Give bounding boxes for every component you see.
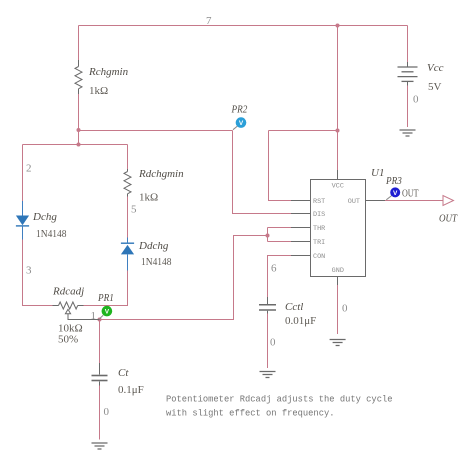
svg-text:Ct: Ct bbox=[118, 367, 129, 379]
svg-text:7: 7 bbox=[206, 15, 212, 27]
svg-text:0: 0 bbox=[342, 303, 348, 315]
svg-text:3: 3 bbox=[26, 265, 32, 277]
svg-text:Vcc: Vcc bbox=[427, 62, 444, 74]
svg-text:2: 2 bbox=[26, 163, 32, 175]
svg-text:0.1μF: 0.1μF bbox=[118, 384, 144, 396]
svg-text:OUT: OUT bbox=[348, 198, 360, 206]
svg-text:PR2: PR2 bbox=[231, 104, 248, 116]
svg-text:VCC: VCC bbox=[332, 183, 344, 191]
svg-text:Ddchg: Ddchg bbox=[138, 240, 169, 252]
svg-text:6: 6 bbox=[271, 263, 277, 275]
svg-text:5: 5 bbox=[131, 204, 137, 216]
svg-text:RST: RST bbox=[313, 198, 325, 206]
svg-text:OUT: OUT bbox=[439, 213, 458, 225]
svg-text:PR3: PR3 bbox=[385, 175, 402, 187]
svg-text:0.01μF: 0.01μF bbox=[285, 315, 316, 327]
svg-text:0: 0 bbox=[104, 406, 110, 418]
svg-text:PR1: PR1 bbox=[97, 292, 114, 304]
svg-text:Rdchgmin: Rdchgmin bbox=[138, 168, 184, 180]
svg-text:GND: GND bbox=[332, 267, 344, 275]
svg-text:Rdcadj: Rdcadj bbox=[52, 286, 84, 298]
svg-text:1N4148: 1N4148 bbox=[141, 256, 172, 268]
svg-text:V: V bbox=[239, 120, 244, 127]
svg-text:50%: 50% bbox=[58, 334, 78, 346]
svg-text:Potentiometer Rdcadj adjusts t: Potentiometer Rdcadj adjusts the duty cy… bbox=[166, 395, 393, 405]
svg-text:Rchgmin: Rchgmin bbox=[88, 66, 129, 78]
svg-text:1N4148: 1N4148 bbox=[36, 228, 67, 240]
svg-text:with slight effect on frequenc: with slight effect on frequency. bbox=[166, 409, 335, 419]
svg-text:0: 0 bbox=[270, 337, 276, 349]
svg-text:V: V bbox=[105, 309, 110, 316]
svg-text:DIS: DIS bbox=[313, 211, 325, 219]
svg-text:CON: CON bbox=[313, 253, 325, 261]
svg-text:Cctl: Cctl bbox=[285, 301, 303, 313]
svg-text:1kΩ: 1kΩ bbox=[89, 85, 108, 97]
svg-text:Dchg: Dchg bbox=[32, 211, 57, 223]
svg-text:U1: U1 bbox=[371, 167, 384, 179]
svg-text:OUT: OUT bbox=[402, 188, 419, 200]
svg-text:V: V bbox=[393, 190, 398, 197]
svg-text:5V: 5V bbox=[428, 81, 442, 93]
svg-text:0: 0 bbox=[413, 94, 419, 106]
svg-text:TRI: TRI bbox=[313, 239, 325, 247]
svg-text:THR: THR bbox=[313, 225, 325, 233]
svg-text:1kΩ: 1kΩ bbox=[139, 192, 158, 204]
svg-text:1: 1 bbox=[91, 310, 97, 322]
